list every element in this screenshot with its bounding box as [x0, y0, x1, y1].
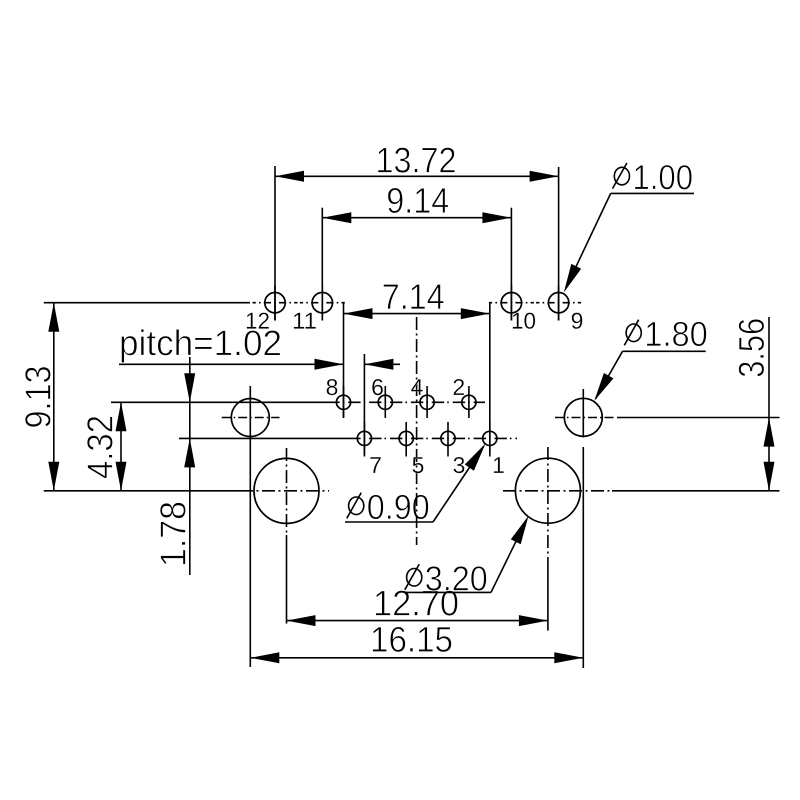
dimension 12.70 bottom — [287, 535, 548, 631]
pin 10 — [501, 285, 536, 334]
extension line left small mounting hole column — [249, 386, 251, 667]
svg-text:10: 10 — [511, 308, 536, 334]
svg-text:1: 1 — [492, 452, 505, 478]
pin 7 — [357, 422, 382, 478]
svg-text:7.14: 7.14 — [382, 276, 445, 317]
svg-text:6: 6 — [371, 374, 384, 400]
pin 1 — [483, 422, 505, 478]
mounting hole left 3.20 — [254, 458, 319, 523]
svg-text:1.80: 1.80 — [644, 315, 708, 354]
svg-text:2: 2 — [452, 374, 465, 400]
extension line pin7 column — [363, 354, 365, 455]
svg-text:3.20: 3.20 — [425, 560, 488, 599]
dimension 13.72 top — [275, 139, 559, 181]
centerline right big hole vertical — [547, 447, 549, 557]
pin 5 — [399, 422, 424, 478]
svg-text:1.78: 1.78 — [152, 501, 193, 567]
centerline right small mounting hole — [555, 417, 615, 419]
svg-text:9.13: 9.13 — [18, 366, 59, 429]
centerline vertical axis — [416, 317, 418, 545]
centerline left big hole vertical — [286, 448, 288, 535]
pin 4 — [411, 374, 435, 418]
extension line pin11 column — [321, 208, 323, 321]
extension line pin12 column — [274, 166, 276, 321]
pin 11 — [292, 285, 333, 334]
dimension pitch=1.02 — [119, 322, 400, 370]
svg-text:3.56: 3.56 — [731, 318, 772, 378]
svg-text:9: 9 — [571, 308, 584, 334]
dimension 3.56 right — [617, 317, 780, 491]
dimension 7.14 — [344, 276, 490, 319]
extension line pin10 column — [510, 208, 512, 321]
dimension 4.32 — [79, 402, 332, 491]
pin 3 — [441, 422, 466, 478]
centerline lower pin row — [352, 437, 517, 439]
leader callout ø3.20 mounting hole — [405, 516, 529, 599]
svg-text:12: 12 — [245, 308, 270, 334]
dimension 16.15 bottom — [250, 619, 583, 664]
svg-text:7: 7 — [369, 452, 382, 478]
pin 2 — [452, 374, 476, 418]
svg-text:1.00: 1.00 — [632, 158, 693, 197]
extension line pin1 column — [489, 304, 491, 454]
pin 8 — [326, 374, 351, 418]
svg-text:5: 5 — [412, 452, 425, 478]
pin 6 — [371, 374, 392, 418]
pin 9 — [548, 285, 583, 334]
leader callout ø1.80 mounting hole — [594, 315, 708, 401]
svg-text:13.72: 13.72 — [375, 139, 456, 180]
dimension 1.78 — [152, 357, 352, 575]
leader callout ø0.90 pin1 — [345, 444, 486, 528]
extension line right small mounting hole column — [582, 389, 584, 438]
mounting hole right 3.20 — [515, 458, 580, 523]
dimension 9.13 left — [18, 303, 251, 491]
centerline left small mounting hole — [222, 417, 280, 419]
centerline top pin row — [253, 302, 298, 304]
mounting hole right 1.80 — [564, 398, 602, 436]
extension line pin9 column — [558, 167, 560, 321]
svg-text:4.32: 4.32 — [79, 415, 120, 479]
svg-text:8: 8 — [326, 374, 339, 400]
svg-text:16.15: 16.15 — [370, 619, 453, 660]
svg-text:3: 3 — [453, 452, 466, 478]
svg-text:4: 4 — [411, 374, 424, 400]
pin 12 — [245, 285, 285, 334]
mounting hole left 1.80 — [231, 399, 269, 437]
svg-text:0.90: 0.90 — [367, 488, 430, 527]
dimension 9.14 — [322, 180, 511, 223]
svg-text:9.14: 9.14 — [386, 180, 449, 221]
centerline bottom hole row — [240, 490, 329, 492]
svg-text:11: 11 — [292, 308, 317, 334]
centerline upper pin row — [332, 401, 485, 403]
extension line pin8 column — [343, 304, 345, 418]
leader callout ø1.00 pin9 — [564, 158, 694, 292]
